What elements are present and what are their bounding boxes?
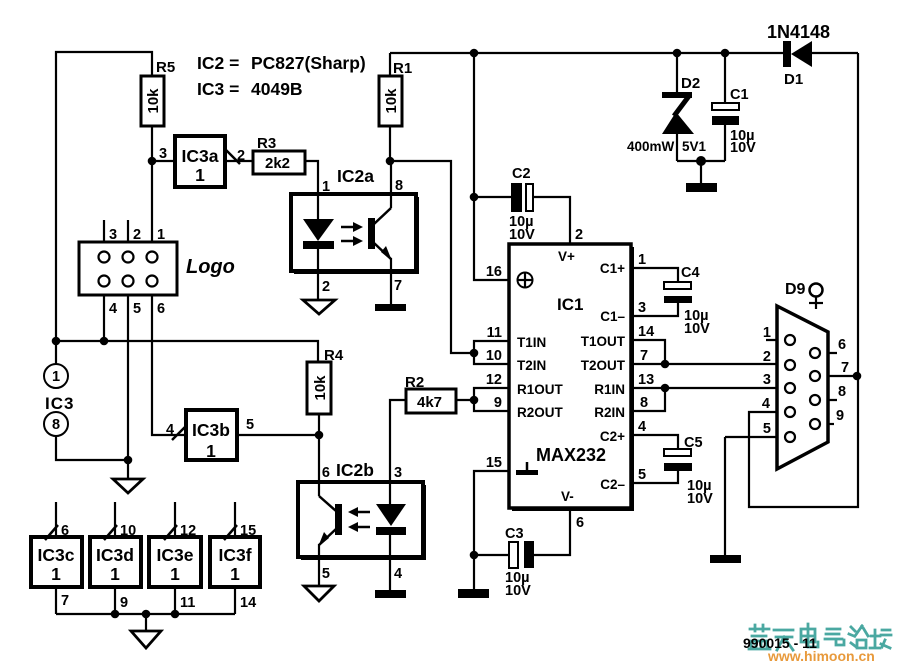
svg-text:1: 1 (206, 441, 216, 461)
svg-text:400mW: 400mW (627, 139, 675, 154)
svg-text:1: 1 (157, 227, 165, 243)
svg-text:T1OUT: T1OUT (581, 334, 626, 349)
svg-text:3: 3 (394, 465, 402, 481)
svg-text:IC3e: IC3e (157, 545, 194, 565)
svg-text:IC3: IC3 (45, 394, 74, 413)
svg-text:5: 5 (246, 417, 254, 433)
svg-text:4: 4 (762, 396, 770, 412)
svg-text:15: 15 (240, 523, 256, 539)
svg-text:8: 8 (838, 384, 846, 400)
svg-text:6: 6 (576, 515, 584, 531)
svg-text:7: 7 (841, 360, 849, 376)
svg-text:1: 1 (110, 564, 120, 584)
svg-text:2: 2 (763, 349, 771, 365)
svg-text:12: 12 (180, 523, 196, 539)
svg-text:3: 3 (638, 300, 646, 316)
svg-text:11: 11 (487, 325, 502, 341)
svg-text:D2: D2 (681, 75, 700, 92)
svg-text:IC3a: IC3a (182, 146, 219, 166)
svg-text:IC3 =: IC3 = (197, 79, 239, 99)
svg-text:PC827(Sharp): PC827(Sharp) (251, 53, 366, 73)
svg-text:IC2b: IC2b (336, 460, 374, 480)
svg-text:C1: C1 (730, 87, 749, 103)
svg-text:7: 7 (61, 593, 69, 609)
svg-text:1: 1 (638, 252, 646, 268)
svg-text:14: 14 (240, 595, 256, 611)
svg-text:9: 9 (494, 395, 502, 411)
svg-text:12: 12 (486, 372, 502, 388)
svg-text:R1OUT: R1OUT (517, 382, 564, 397)
svg-text:5: 5 (638, 467, 646, 483)
svg-text:1: 1 (170, 564, 180, 584)
svg-text:4k7: 4k7 (417, 394, 442, 411)
svg-text:R2: R2 (405, 374, 424, 391)
svg-text:IC1: IC1 (557, 295, 583, 314)
svg-text:T2OUT: T2OUT (581, 358, 626, 373)
svg-text:T1IN: T1IN (517, 335, 546, 350)
svg-text:3: 3 (109, 227, 117, 243)
svg-text:5: 5 (133, 301, 141, 317)
svg-text:IC3c: IC3c (38, 545, 75, 565)
svg-text:1: 1 (51, 564, 61, 584)
svg-text:3: 3 (159, 146, 167, 162)
svg-text:4049B: 4049B (251, 79, 303, 99)
svg-text:C3: C3 (505, 526, 524, 542)
svg-text:IC3b: IC3b (192, 420, 230, 440)
svg-text:6: 6 (322, 465, 330, 481)
svg-text:R2IN: R2IN (594, 405, 625, 420)
svg-text:10: 10 (120, 523, 136, 539)
svg-text:2: 2 (237, 148, 245, 164)
svg-text:C5: C5 (684, 435, 703, 451)
svg-text:4: 4 (638, 419, 646, 435)
svg-text:2: 2 (322, 279, 330, 295)
svg-text:11: 11 (180, 595, 195, 611)
svg-text:IC2a: IC2a (337, 166, 374, 186)
svg-text:C1+: C1+ (600, 261, 625, 276)
svg-text:1: 1 (322, 179, 330, 195)
svg-text:10k: 10k (383, 88, 400, 114)
svg-text:10V: 10V (684, 321, 710, 337)
svg-text:V+: V+ (558, 249, 575, 264)
svg-text:7: 7 (394, 278, 402, 294)
svg-text:D1: D1 (784, 71, 803, 88)
svg-text:R4: R4 (324, 347, 344, 364)
svg-text:R3: R3 (257, 135, 276, 152)
svg-text:6: 6 (157, 301, 165, 317)
svg-text:10V: 10V (687, 491, 713, 507)
svg-text:8: 8 (52, 417, 60, 433)
svg-text:T2IN: T2IN (517, 358, 546, 373)
svg-text:IC3d: IC3d (96, 545, 134, 565)
svg-text:10k: 10k (312, 375, 329, 401)
svg-text:3: 3 (763, 372, 771, 388)
svg-text:4: 4 (109, 301, 117, 317)
svg-text:8: 8 (395, 178, 403, 194)
svg-text:V-: V- (561, 489, 574, 504)
svg-text:C2: C2 (512, 166, 531, 182)
svg-text:C4: C4 (681, 265, 700, 281)
svg-text:16: 16 (486, 264, 502, 280)
svg-text:7: 7 (640, 348, 648, 364)
svg-text:10V: 10V (505, 583, 531, 599)
svg-text:5V1: 5V1 (682, 139, 707, 154)
svg-text:2k2: 2k2 (265, 155, 290, 172)
svg-text:15: 15 (486, 455, 502, 471)
svg-text:1: 1 (230, 564, 240, 584)
svg-text:4: 4 (394, 566, 402, 582)
svg-text:5: 5 (322, 566, 330, 582)
svg-text:10k: 10k (145, 88, 162, 114)
svg-text:1: 1 (195, 165, 205, 185)
svg-text:1: 1 (52, 369, 60, 385)
svg-text:4: 4 (166, 422, 174, 438)
svg-text:R2OUT: R2OUT (517, 405, 564, 420)
svg-text:IC3f: IC3f (218, 545, 251, 565)
svg-text:R1: R1 (393, 60, 412, 77)
svg-text:D9: D9 (785, 281, 806, 298)
svg-text:9: 9 (836, 408, 844, 424)
svg-text:10V: 10V (509, 227, 535, 243)
svg-text:6: 6 (838, 337, 846, 353)
svg-text:6: 6 (61, 523, 69, 539)
svg-text:C2–: C2– (600, 477, 625, 492)
svg-text:10V: 10V (730, 140, 756, 156)
svg-text:1N4148: 1N4148 (767, 22, 830, 42)
svg-text:8: 8 (640, 395, 648, 411)
svg-text:MAX232: MAX232 (536, 445, 606, 465)
svg-text:10: 10 (486, 348, 502, 364)
svg-text:Logo: Logo (186, 256, 235, 278)
svg-text:13: 13 (638, 372, 654, 388)
svg-text:2: 2 (575, 227, 583, 243)
svg-text:5: 5 (763, 421, 771, 437)
svg-text:R1IN: R1IN (594, 382, 625, 397)
svg-text:9: 9 (120, 595, 128, 611)
svg-text:C1–: C1– (600, 309, 625, 324)
svg-text:IC2 =: IC2 = (197, 53, 239, 73)
svg-text:1: 1 (763, 325, 771, 341)
svg-text:2: 2 (133, 227, 141, 243)
svg-text:www.himoon.cn: www.himoon.cn (767, 648, 875, 664)
svg-text:C2+: C2+ (600, 429, 625, 444)
svg-text:R5: R5 (156, 59, 175, 76)
svg-text:14: 14 (638, 324, 654, 340)
